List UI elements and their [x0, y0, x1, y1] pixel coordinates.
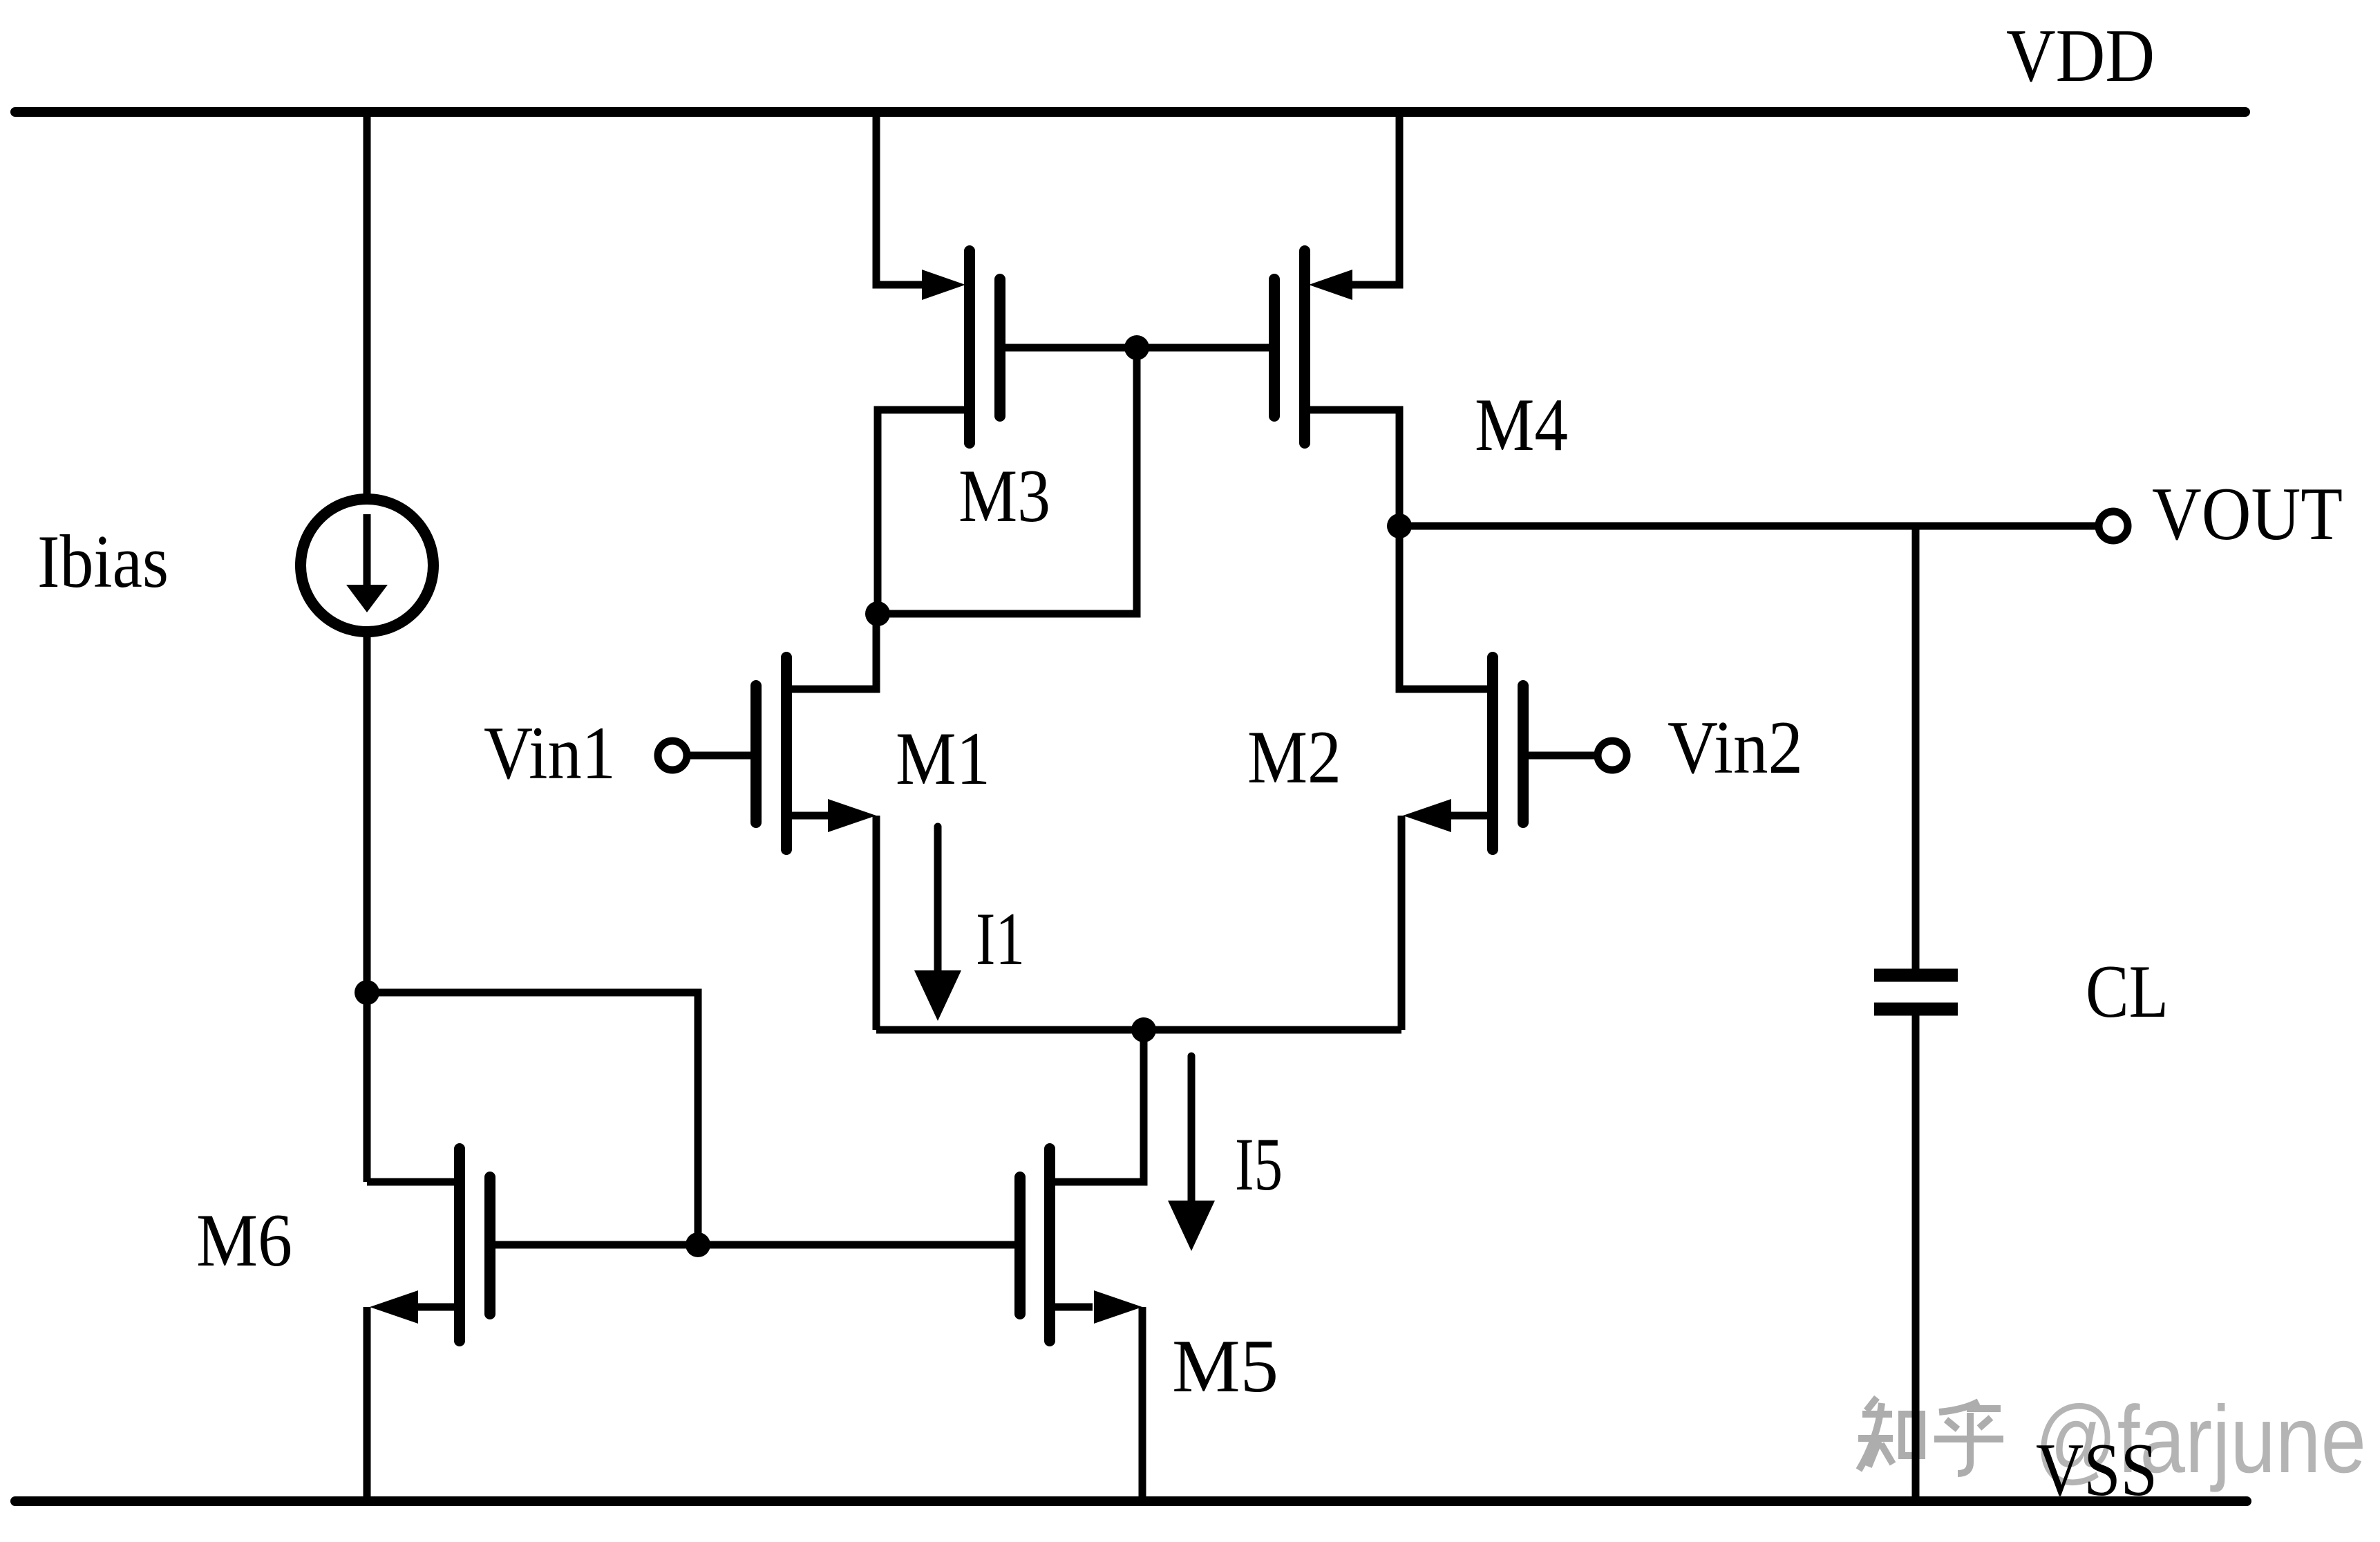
svg-text:Vin1: Vin1	[484, 711, 616, 795]
wire tail to M5 drain	[1050, 1030, 1144, 1182]
terminal Vin2	[1598, 741, 1627, 770]
svg-text:Ibias: Ibias	[37, 520, 169, 603]
M5 label	[1172, 1324, 1278, 1408]
svg-text:M3: M3	[958, 454, 1050, 538]
node bias junction	[355, 980, 379, 1005]
wire gate junction down to node A	[878, 348, 1137, 614]
svg-text:CL: CL	[2086, 950, 2169, 1033]
wire VOUT node to terminal	[1399, 523, 2099, 530]
svg-text:M5: M5	[1172, 1324, 1278, 1408]
wire tail node	[876, 1026, 1401, 1034]
wire VDD to M4 source	[1350, 107, 1399, 285]
wire M2 gate to Vin2	[1523, 752, 1598, 760]
M1 label	[896, 717, 990, 800]
VDD label	[2006, 14, 2155, 97]
M6 label	[196, 1198, 292, 1282]
svg-text:VDD: VDD	[2006, 14, 2155, 97]
watermark zhihu farjune	[1858, 1386, 2366, 1493]
wire M4 drain to M2 drain (VOUT node)	[1305, 410, 1493, 689]
transistor M4	[1274, 251, 1352, 443]
wire M6 gate to M5 gate	[490, 1241, 1020, 1249]
terminal Vin1	[658, 741, 687, 770]
terminal VOUT	[2099, 511, 2128, 540]
wire VDD to M3 source	[876, 107, 926, 285]
wire M1 source to tail	[873, 816, 880, 1030]
transistor M1	[756, 657, 876, 849]
wire Ibias bottom to M6 drain	[363, 632, 371, 1182]
wire CL bottom to VSS	[1912, 1009, 1920, 1501]
wire VOUT to CL top	[1912, 526, 1920, 975]
transistor M6	[370, 1149, 490, 1341]
wire M1 drain to node A	[786, 614, 876, 689]
wire VDD to Ibias top	[363, 107, 371, 499]
wire M6 drain stub	[367, 1178, 460, 1186]
current arrow I1	[914, 827, 961, 1021]
svg-text:I5: I5	[1235, 1122, 1283, 1206]
I1 label	[976, 897, 1025, 981]
node mirror gate junction	[1124, 335, 1149, 360]
VDD rail	[15, 107, 2245, 117]
svg-text:M4: M4	[1475, 383, 1568, 467]
wire M1 gate to Vin1	[687, 752, 756, 760]
svg-text:M2: M2	[1247, 715, 1341, 799]
M2 label	[1247, 715, 1341, 799]
VSS label	[2036, 1428, 2157, 1512]
capacitor CL	[1874, 975, 1958, 1009]
svg-text:I1: I1	[976, 897, 1025, 981]
wire M5 source to VSS	[1139, 1307, 1146, 1501]
Vin2 label	[1668, 706, 1803, 789]
M3 label	[958, 454, 1050, 538]
current arrow I5	[1168, 1056, 1215, 1251]
Vin1 label	[484, 711, 616, 795]
transistor M5	[1020, 1149, 1142, 1341]
wire bias node to mirror gate	[367, 993, 698, 1245]
transistor M2	[1403, 657, 1523, 849]
svg-text:VSS: VSS	[2036, 1428, 2157, 1512]
wire M6 source to VSS	[363, 1307, 371, 1501]
wire M2 source to tail	[1398, 816, 1406, 1030]
svg-text:VOUT: VOUT	[2152, 472, 2343, 556]
VSS rail	[15, 1496, 2247, 1506]
node A dot	[865, 601, 890, 626]
transistor M3	[922, 251, 1000, 443]
CL label	[2086, 950, 2169, 1033]
node mirror gate dot	[686, 1232, 710, 1257]
wire M3 gate to M4 gate	[1000, 344, 1274, 352]
wire M3 drain down to node A	[878, 410, 970, 618]
node tail junction	[1131, 1017, 1156, 1042]
svg-text:Vin2: Vin2	[1668, 706, 1803, 789]
I5 label	[1235, 1122, 1283, 1206]
VOUT label	[2152, 472, 2343, 556]
node VOUT junction	[1387, 514, 1412, 538]
Ibias label	[37, 520, 169, 603]
current source Ibias	[301, 499, 433, 632]
M4 label	[1475, 383, 1568, 467]
svg-text:M1: M1	[896, 717, 990, 800]
svg-text:M6: M6	[196, 1198, 292, 1282]
